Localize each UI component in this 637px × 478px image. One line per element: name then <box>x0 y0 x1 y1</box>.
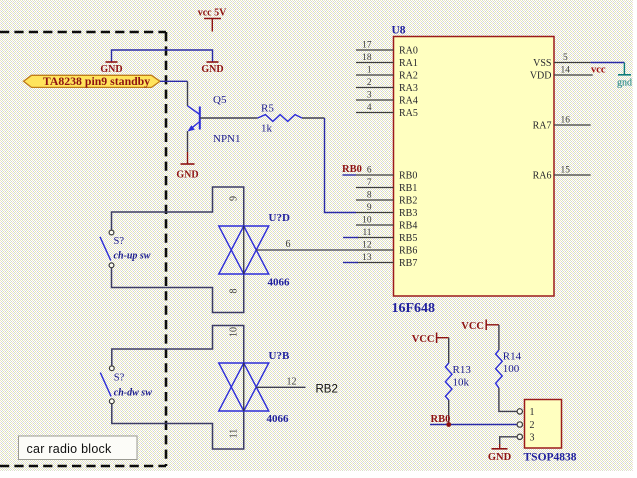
svg-text:9: 9 <box>367 203 372 213</box>
svg-text:RA4: RA4 <box>399 96 418 107</box>
wire RB7 stub <box>343 262 358 264</box>
svg-text:VCC: VCC <box>412 334 435 345</box>
car radio block dashed boundary bottom <box>0 465 166 468</box>
svg-text:TSOP4838: TSOP4838 <box>524 452 577 464</box>
junction RB0 node <box>446 422 451 427</box>
svg-text:3: 3 <box>367 91 372 101</box>
svg-text:GND: GND <box>488 452 512 463</box>
svg-text:16: 16 <box>561 116 571 126</box>
svg-text:15: 15 <box>561 166 571 176</box>
svg-text:18: 18 <box>362 53 372 63</box>
svg-text:S?: S? <box>114 373 125 384</box>
svg-text:13: 13 <box>362 253 372 263</box>
pin 1 bubble <box>517 409 522 414</box>
svg-text:14: 14 <box>561 66 571 76</box>
svg-text:100: 100 <box>503 363 520 375</box>
car radio block dashed boundary top <box>0 31 166 34</box>
svg-text:VDD: VDD <box>530 71 552 82</box>
svg-text:12: 12 <box>362 241 372 251</box>
wire VCC to R14 <box>498 325 500 350</box>
wire Q5 base to R5 <box>200 117 258 119</box>
svg-text:R14: R14 <box>503 351 522 363</box>
power port gnd (teal) <box>623 63 625 75</box>
svg-text:GND: GND <box>176 170 198 181</box>
svg-text:6: 6 <box>286 239 291 250</box>
svg-text:U?B: U?B <box>269 350 290 362</box>
svg-text:GND: GND <box>201 64 223 75</box>
svg-text:RB4: RB4 <box>399 221 417 232</box>
analog switch U?D (4066) <box>219 226 269 274</box>
wire RB5 stub <box>343 237 358 239</box>
svg-text:U8: U8 <box>392 25 406 37</box>
resistor R14 <box>496 350 503 388</box>
wire TSOP pin 3 to GND <box>500 437 517 444</box>
IC U8 16F648 body <box>394 37 555 297</box>
svg-text:11: 11 <box>362 228 371 238</box>
wire R13 to RB0 node <box>448 400 450 425</box>
svg-text:RA0: RA0 <box>399 46 418 57</box>
switch S? ch-up sw <box>100 230 151 268</box>
wire U?D control pin 6 to RB6 <box>256 249 356 251</box>
wire switch S? ch-dw top to U?B pin 10 <box>112 326 244 367</box>
wire label to Q5 collector <box>160 80 188 82</box>
svg-text:9: 9 <box>229 196 240 201</box>
svg-text:3: 3 <box>530 433 535 444</box>
ground GND (right of pair) <box>207 61 219 63</box>
svg-text:ch-up sw: ch-up sw <box>114 251 151 262</box>
svg-text:7: 7 <box>367 178 372 188</box>
wire RB0 to TSOP pin 2 <box>430 424 517 426</box>
svg-text:2: 2 <box>530 420 535 431</box>
analog switch U?B (4066) <box>219 363 269 411</box>
right pins VSS VDD RA7 RA6 <box>554 63 593 176</box>
svg-text:ch-dw sw: ch-dw sw <box>114 387 152 398</box>
svg-text:RB2: RB2 <box>399 196 417 207</box>
resistor R5 <box>258 115 302 122</box>
svg-text:RA5: RA5 <box>399 108 418 119</box>
svg-text:RB6: RB6 <box>399 246 417 257</box>
svg-text:5: 5 <box>563 53 568 63</box>
svg-text:6: 6 <box>367 166 372 176</box>
transistor Q5 <box>188 106 200 132</box>
wire emitter to ground <box>187 131 189 152</box>
svg-text:RB3: RB3 <box>399 208 417 219</box>
svg-text:12: 12 <box>287 377 297 388</box>
wire switch S? ch-up top to U?D pin 9 <box>112 187 244 230</box>
wire switch S? ch-dw bottom to U?B pin 11 <box>112 404 244 449</box>
svg-text:17: 17 <box>362 41 372 51</box>
left pins RB0-RB7 <box>356 175 394 263</box>
svg-text:RB7: RB7 <box>399 258 417 269</box>
switch S? ch-dw sw <box>100 366 152 404</box>
svg-text:RB0: RB0 <box>342 164 362 175</box>
svg-text:RA3: RA3 <box>399 83 418 94</box>
svg-text:NPN1: NPN1 <box>213 133 241 145</box>
svg-text:RB0: RB0 <box>399 171 417 182</box>
svg-text:4066: 4066 <box>268 277 291 289</box>
wire VCC to R13 <box>448 338 450 363</box>
wire between GND symbols <box>112 50 213 62</box>
wire switch S? ch-up bottom to U?D pin 8 <box>112 268 244 313</box>
wire through U?B pins 10-11 <box>243 363 245 411</box>
svg-text:1k: 1k <box>261 123 273 135</box>
svg-text:10: 10 <box>362 216 372 226</box>
svg-text:vcc: vcc <box>591 65 606 76</box>
svg-text:vcc 5V: vcc 5V <box>198 8 227 19</box>
svg-text:RA1: RA1 <box>399 58 418 69</box>
svg-text:8: 8 <box>367 191 372 201</box>
svg-text:RA6: RA6 <box>533 171 552 182</box>
svg-text:10: 10 <box>229 327 240 337</box>
car radio block text box <box>19 436 138 460</box>
svg-text:Q5: Q5 <box>213 94 227 106</box>
svg-text:U?D: U?D <box>269 212 290 224</box>
svg-text:RA7: RA7 <box>533 121 552 132</box>
svg-text:R5: R5 <box>261 103 274 115</box>
svg-text:16F648: 16F648 <box>392 301 436 316</box>
svg-text:S?: S? <box>114 236 125 247</box>
svg-text:VCC: VCC <box>461 321 484 332</box>
wire RB0 stub <box>343 174 357 176</box>
car radio block dashed boundary right <box>165 32 168 466</box>
svg-text:2: 2 <box>367 78 372 88</box>
wire VSS to gnd <box>591 62 625 64</box>
resistor R13 <box>445 363 452 400</box>
svg-text:1: 1 <box>367 66 372 76</box>
svg-text:TA8238 pin9 standby: TA8238 pin9 standby <box>43 74 150 88</box>
svg-text:RA2: RA2 <box>399 71 418 82</box>
ground at Q5 emitter <box>181 163 195 165</box>
svg-text:RB1: RB1 <box>399 183 417 194</box>
svg-text:RB5: RB5 <box>399 233 417 244</box>
svg-text:gnd: gnd <box>617 78 632 89</box>
svg-text:4066: 4066 <box>267 413 290 425</box>
svg-text:11: 11 <box>229 429 240 439</box>
svg-text:1: 1 <box>530 407 535 418</box>
ground GND at TSOP <box>492 448 508 450</box>
wire through U?D pins 9-8 <box>243 226 245 274</box>
svg-text:RB2: RB2 <box>316 383 338 395</box>
wire R5 to RB3 <box>302 117 325 119</box>
wire R14 to TSOP pin 1 <box>499 388 517 411</box>
pin 2 bubble <box>517 422 522 427</box>
svg-text:10k: 10k <box>453 376 470 388</box>
IR receiver TSOP4838 body <box>525 400 562 449</box>
left pins RA0-RA5 <box>356 50 394 113</box>
svg-text:R13: R13 <box>453 364 472 376</box>
svg-text:car radio block: car radio block <box>27 442 113 456</box>
wire collector vertical <box>187 81 189 106</box>
wire U?B control pin 12 <box>256 386 305 388</box>
svg-text:VSS: VSS <box>533 58 551 69</box>
svg-text:4: 4 <box>367 103 372 113</box>
svg-text:8: 8 <box>229 289 240 294</box>
net label TA8238 pin9 standby <box>24 75 161 87</box>
ground GND (left of pair) <box>106 61 118 63</box>
pin 3 bubble <box>517 434 522 439</box>
